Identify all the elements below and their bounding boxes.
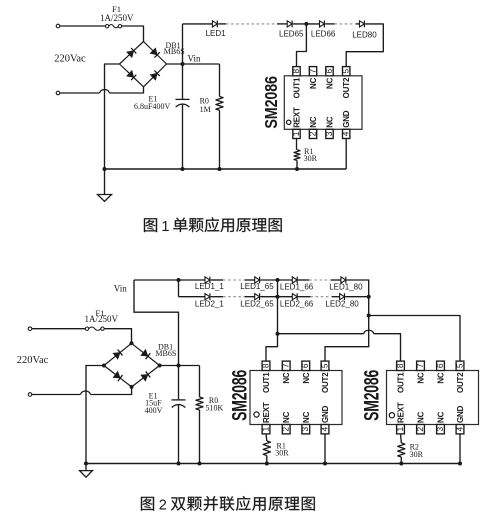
dashed wire row1 (LED1_67..LED1_79) <box>309 279 331 281</box>
wire after LED1_66 <box>298 279 309 281</box>
svg-text:6: 6 <box>300 363 310 368</box>
wire link row1 to row2 <box>178 280 180 297</box>
svg-text:30R: 30R <box>304 154 318 163</box>
svg-text:NC: NC <box>437 372 446 384</box>
wire fuse to bridge top <box>122 26 144 42</box>
U3 pin 1 (REXT) <box>395 402 406 434</box>
svg-text:7: 7 <box>415 363 425 368</box>
U2 pin 4 (GND) <box>319 405 330 434</box>
LED D: LED80 <box>360 21 365 28</box>
U1 pin 2 (NC) <box>307 116 318 138</box>
svg-text:OUT2: OUT2 <box>321 372 330 393</box>
svg-text:LED2_80: LED2_80 <box>325 299 359 308</box>
wire bridge DC+ (Vin node) to R0 <box>167 63 220 65</box>
U2 pin 8 (OUT1) <box>260 361 271 393</box>
wire Vin node up to LED row <box>182 24 184 64</box>
dashed wire row1 (LED1_2..LED1_64) <box>223 279 245 281</box>
capacitor E1 6.8uF400V wire <box>182 64 184 99</box>
U3 pin 7 (NC) <box>415 361 426 384</box>
node row1-row2 link dot <box>177 278 181 282</box>
svg-text:GND: GND <box>456 405 465 423</box>
svg-text:NC: NC <box>417 372 426 384</box>
svg-text:5: 5 <box>319 363 329 368</box>
wire after LED66 <box>325 23 334 25</box>
wire LED1_65 to tap <box>260 279 292 281</box>
wire bridge DC- to rail (fig2) <box>86 366 104 464</box>
ground symbol (fig2) <box>80 464 93 478</box>
svg-text:400V: 400V <box>145 406 163 415</box>
svg-text:LED2_66: LED2_66 <box>280 299 314 308</box>
wire terminal N2 to bridge bottom, hop over DC- wire <box>32 394 81 396</box>
svg-text:OUT2: OUT2 <box>342 77 351 98</box>
svg-text:1: 1 <box>395 427 405 432</box>
wire LED65 to tap node <box>293 23 320 25</box>
node rail junction dots <box>103 167 107 171</box>
svg-text:LED1_66: LED1_66 <box>280 282 314 291</box>
svg-text:1: 1 <box>260 427 270 432</box>
U3 pin 8 (OUT1) <box>395 361 406 393</box>
svg-text:NC: NC <box>417 411 426 423</box>
LED D: LED2_1 <box>205 293 210 300</box>
wire fuse to bridge top (fig2) <box>104 329 131 344</box>
svg-text:LED66: LED66 <box>311 30 336 39</box>
svg-text:SM2086: SM2086 <box>228 370 252 421</box>
svg-text:LED1_80: LED1_80 <box>329 282 363 291</box>
LED D: LED1_1 <box>205 277 210 284</box>
fuse F1 (fig2) <box>85 327 104 330</box>
svg-text:1: 1 <box>291 131 301 136</box>
svg-text:LED2_1: LED2_1 <box>195 299 224 308</box>
svg-text:6: 6 <box>324 69 334 74</box>
resistor R1 30R (fig2) <box>263 434 270 464</box>
resistor R1 30R <box>294 139 300 170</box>
svg-text:3: 3 <box>300 427 310 432</box>
svg-text:3: 3 <box>435 427 445 432</box>
svg-text:3: 3 <box>324 131 334 136</box>
svg-text:MB6S: MB6S <box>155 349 176 358</box>
LED D: LED2_65 <box>255 293 260 300</box>
LED D: LED2_80 <box>340 293 345 300</box>
node tap bus junction dot <box>276 332 280 336</box>
svg-text:1M: 1M <box>200 105 211 114</box>
wire bridge DC+ to R0 (fig2) <box>160 365 200 367</box>
terminal L (AC input top) <box>56 24 60 28</box>
svg-text:GND: GND <box>321 405 330 423</box>
U1 pin 3 (NC) <box>324 116 335 138</box>
svg-text:4: 4 <box>319 427 329 432</box>
svg-text:SM2086: SM2086 <box>360 370 384 421</box>
wire Vin riser: DC+ up and over to LED row 1 <box>134 280 179 366</box>
LED D: LED1 <box>212 21 217 28</box>
LED D: LED1_80 <box>341 277 346 284</box>
wire LED row 2 start <box>179 296 206 298</box>
U3 pin 2 (NC) <box>415 411 426 433</box>
svg-text:2: 2 <box>415 427 425 432</box>
svg-text:30R: 30R <box>275 449 289 458</box>
svg-text:LED80: LED80 <box>352 30 377 39</box>
svg-text:4: 4 <box>454 427 464 432</box>
U2 pin 1 (REXT) <box>260 402 271 434</box>
svg-text:OUT1: OUT1 <box>397 372 406 393</box>
svg-text:220Vac: 220Vac <box>17 355 49 366</box>
svg-text:LED1_1: LED1_1 <box>195 282 224 291</box>
capacitor E1 fig2 <box>172 400 186 408</box>
svg-text:1A/250V: 1A/250V <box>85 314 119 324</box>
wire row1 end to right drop <box>347 280 369 297</box>
svg-text:Vin: Vin <box>114 284 127 294</box>
node rail2 junction dots <box>84 462 88 466</box>
wire OUT2 bus to U3 pin 5 <box>369 316 460 362</box>
svg-text:LED65: LED65 <box>279 30 304 39</box>
dashed continuation wire (LED2..LED64) <box>226 23 277 25</box>
U3 pin 4 (GND) <box>454 405 465 434</box>
op-amp U1 SM2086 IC body <box>284 76 362 130</box>
dashed wire row2 (LED2_2..LED2_64) <box>223 296 245 298</box>
svg-text:REXT: REXT <box>262 402 271 423</box>
LED D: LED1_66 <box>292 277 297 284</box>
svg-text:NC: NC <box>282 372 291 384</box>
svg-text:510K: 510K <box>206 403 224 412</box>
wire terminal L2 to fuse <box>32 328 86 330</box>
wire before LED65 <box>277 23 287 25</box>
U3 pin 6 (NC) <box>435 361 446 384</box>
svg-text:2: 2 <box>307 131 317 136</box>
svg-text:5: 5 <box>454 363 464 368</box>
wire after LED1_1 <box>211 279 223 281</box>
U3 pin 3 (NC) <box>435 411 446 433</box>
wire U2 pin 4 GND to rail <box>324 434 326 464</box>
U1 pin 4 (GND) <box>341 110 352 138</box>
wire right drop (x=368.7) to OUT2 of U2 <box>325 297 369 362</box>
wire before LED1_80 <box>331 279 341 281</box>
svg-text:6: 6 <box>435 363 445 368</box>
resistor R0 510K (fig2) <box>196 366 203 464</box>
capacitor E1 <box>176 99 190 107</box>
wire tap bus down (x=277.5) to OUT1 of U2 <box>266 280 278 362</box>
svg-text:MB6S: MB6S <box>164 47 185 56</box>
svg-text:6.8uF400V: 6.8uF400V <box>134 102 170 111</box>
U1 pin 8 (OUT1) <box>291 67 302 99</box>
svg-text:8: 8 <box>395 363 405 368</box>
op-amp U2 SM2086 IC body <box>250 371 342 425</box>
wire row2 end join right drop <box>345 296 368 298</box>
wire tap node down to pin 8 OUT1 <box>297 24 307 67</box>
wire before LED1_65 <box>245 279 255 281</box>
svg-text:LED1_65: LED1_65 <box>240 282 274 291</box>
svg-text:REXT: REXT <box>397 402 406 423</box>
wire LED row start <box>183 23 213 25</box>
wire before LED2_80 <box>332 296 340 298</box>
caption figure 2 <box>141 496 315 513</box>
terminal L2 (AC input top) <box>28 327 32 331</box>
wire after LED2_1 <box>211 296 223 298</box>
svg-text:NC: NC <box>326 116 335 128</box>
svg-text:NC: NC <box>302 411 311 423</box>
svg-text:30R: 30R <box>410 450 424 459</box>
svg-text:8: 8 <box>260 363 270 368</box>
node DC+ junction dot <box>177 364 181 368</box>
node Vin junction dot <box>181 62 185 66</box>
svg-text:220Vac: 220Vac <box>54 54 86 65</box>
svg-text:1: 1 <box>161 219 169 235</box>
svg-text:7: 7 <box>281 363 291 368</box>
terminal N (AC input bottom) <box>56 91 60 95</box>
LED D: LED66 <box>320 21 325 28</box>
U1 pin 7 (NC) <box>307 67 318 89</box>
terminal N2 (AC input bottom) <box>28 393 32 397</box>
wire bridge DC- to ground rail <box>105 64 120 169</box>
svg-text:NC: NC <box>437 411 446 423</box>
wire LED2_65 to tap <box>260 296 292 298</box>
svg-text:LED1: LED1 <box>206 29 227 38</box>
svg-text:SM2086: SM2086 <box>262 76 282 129</box>
svg-text:4: 4 <box>341 131 351 136</box>
U2 pin 7 (NC) <box>281 361 292 384</box>
wire OUT1 bus to U3 pin 8, hop over right drop <box>278 333 364 335</box>
svg-text:NC: NC <box>326 77 335 89</box>
svg-text:NC: NC <box>282 411 291 423</box>
svg-text:LED2_65: LED2_65 <box>240 299 274 308</box>
wire terminal L to fuse <box>60 25 106 27</box>
wire pin 4 GND to rail <box>345 138 347 169</box>
wire before LED80 <box>356 23 360 25</box>
svg-text:5: 5 <box>341 69 351 74</box>
svg-text:NC: NC <box>309 77 318 89</box>
U2 pin 6 (NC) <box>300 361 311 384</box>
node row2 end dot <box>367 295 371 299</box>
node bridge2 vertex dots <box>130 341 134 345</box>
wire ground rail fig1 <box>105 168 347 170</box>
LED D: LED65 <box>287 21 292 28</box>
node tap row2 dot <box>276 295 280 299</box>
wire before LED2_65 <box>245 296 255 298</box>
U1 pin 1 (REXT) <box>291 107 302 139</box>
svg-text:GND: GND <box>342 110 351 128</box>
dashed continuation wire (LED67..LED79) <box>335 23 357 25</box>
wire U3 pin 4 GND to rail <box>459 434 461 464</box>
node tap row1 dot <box>276 278 280 282</box>
svg-text:8: 8 <box>291 69 301 74</box>
svg-text:OUT2: OUT2 <box>456 372 465 393</box>
node tap junction (OUT1) dot <box>304 22 308 26</box>
U2 pin 5 (OUT2) <box>319 361 330 393</box>
resistor R0 1M <box>216 64 223 169</box>
node OUT2 bus junction dot <box>367 314 371 318</box>
svg-text:2: 2 <box>159 497 167 513</box>
dashed wire row2 (LED2_67..LED2_79) <box>311 296 333 298</box>
wire terminal N to bridge bottom, hop over DC- wire <box>60 92 100 94</box>
wire after LED2_66 <box>298 296 311 298</box>
capacitor E1 15uF 400V (fig2) <box>178 366 180 400</box>
wire after LED1 <box>218 23 226 25</box>
LED D: LED1_65 <box>255 277 260 284</box>
LED D: LED2_66 <box>292 293 297 300</box>
bridge rectifier DB1 MB6S (fig2) <box>104 343 160 387</box>
wire ground rail fig2 <box>86 463 460 465</box>
U1 pin 5 (OUT2) <box>341 67 352 99</box>
svg-text:7: 7 <box>307 69 317 74</box>
svg-text:NC: NC <box>309 116 318 128</box>
caption figure 1 <box>144 217 282 234</box>
svg-text:1A/250V: 1A/250V <box>100 13 134 23</box>
svg-text:NC: NC <box>302 372 311 384</box>
wire LED80 to OUT2 drop <box>346 24 383 67</box>
svg-text:REXT: REXT <box>293 107 302 128</box>
U1 pin 6 (NC) <box>324 67 335 89</box>
svg-text:OUT1: OUT1 <box>262 372 271 393</box>
wire LED row 1 start <box>134 279 205 281</box>
fuse F1 <box>105 25 121 28</box>
svg-text:2: 2 <box>281 427 291 432</box>
U3 pin 5 (OUT2) <box>454 361 465 393</box>
U2 pin 2 (NC) <box>281 411 292 433</box>
svg-text:Vin: Vin <box>188 54 201 64</box>
resistor R2 30R <box>398 434 405 464</box>
bridge rectifier DB1 MB6S <box>120 42 167 87</box>
U2 pin 3 (NC) <box>300 411 311 433</box>
ground symbol <box>98 169 112 201</box>
op-amp U3 SM2086 IC body <box>387 371 479 425</box>
svg-text:OUT1: OUT1 <box>293 77 302 98</box>
